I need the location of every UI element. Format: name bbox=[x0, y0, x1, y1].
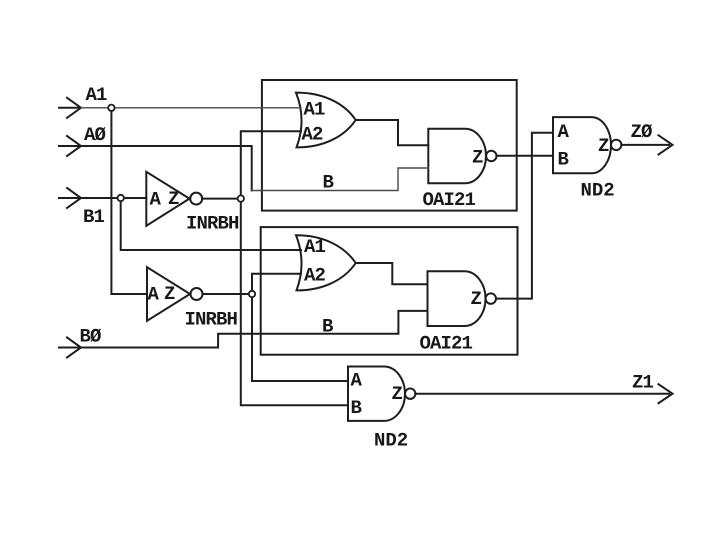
svg-text:A1: A1 bbox=[304, 236, 326, 258]
svg-text:A: A bbox=[558, 121, 570, 143]
svg-text:INRBH: INRBH bbox=[185, 309, 238, 331]
svg-text:A: A bbox=[148, 284, 160, 306]
svg-text:A2: A2 bbox=[304, 265, 326, 287]
svg-text:B: B bbox=[351, 397, 362, 419]
svg-text:Z1: Z1 bbox=[632, 372, 654, 394]
svg-text:Z: Z bbox=[164, 283, 175, 305]
svg-text:B1: B1 bbox=[83, 206, 105, 228]
svg-text:A: A bbox=[150, 189, 162, 211]
svg-text:A: A bbox=[351, 370, 363, 392]
svg-text:B: B bbox=[323, 172, 334, 194]
svg-text:OAI21: OAI21 bbox=[420, 333, 473, 355]
svg-text:BØ: BØ bbox=[80, 326, 102, 348]
svg-text:ZØ: ZØ bbox=[631, 121, 653, 143]
svg-text:B: B bbox=[322, 316, 333, 338]
svg-text:Z: Z bbox=[392, 383, 403, 405]
svg-text:ND2: ND2 bbox=[581, 180, 615, 202]
svg-text:AØ: AØ bbox=[84, 124, 106, 146]
svg-text:A1: A1 bbox=[304, 99, 326, 121]
svg-text:ND2: ND2 bbox=[374, 430, 408, 452]
svg-text:Z: Z bbox=[598, 135, 609, 157]
svg-text:Z: Z bbox=[472, 147, 483, 169]
svg-text:OAI21: OAI21 bbox=[423, 189, 476, 211]
svg-text:B: B bbox=[558, 149, 569, 171]
svg-text:A1: A1 bbox=[86, 84, 108, 106]
svg-text:INRBH: INRBH bbox=[186, 213, 239, 235]
svg-text:Z: Z bbox=[471, 288, 482, 310]
svg-text:A2: A2 bbox=[302, 124, 324, 146]
svg-text:Z: Z bbox=[168, 188, 179, 210]
